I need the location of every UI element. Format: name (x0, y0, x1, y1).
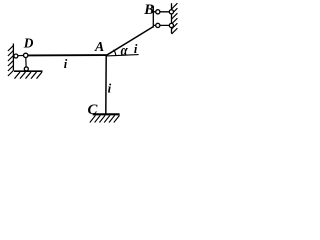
svg-text:i: i (64, 57, 68, 71)
svg-text:D: D (23, 36, 34, 51)
svg-text:C: C (88, 102, 98, 118)
svg-text:α: α (121, 42, 129, 59)
svg-text:B: B (143, 2, 154, 18)
svg-text:A: A (94, 39, 104, 54)
svg-text:i: i (108, 81, 112, 95)
svg-text:i: i (134, 42, 138, 56)
